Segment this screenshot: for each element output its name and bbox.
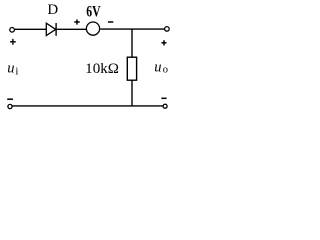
svg-text:i: i <box>15 65 18 77</box>
svg-text:u: u <box>7 60 14 76</box>
svg-text:u: u <box>154 59 161 75</box>
svg-text:D: D <box>47 2 58 18</box>
svg-text:6V: 6V <box>86 3 101 20</box>
svg-text:o: o <box>163 64 168 75</box>
svg-text:10kΩ: 10kΩ <box>85 61 119 77</box>
